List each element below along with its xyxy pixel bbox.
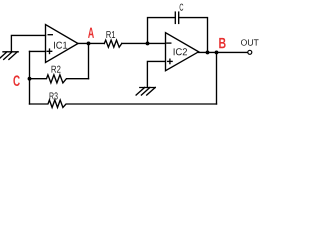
junction capacitor to output <box>206 51 210 55</box>
wire: capacitor left leg <box>148 18 176 44</box>
capacitor C <box>175 12 178 23</box>
op-amp IC1 <box>46 25 79 63</box>
wire: IC2 output to OUT terminal <box>199 51 248 53</box>
label IC1 <box>54 42 67 49</box>
junction node B <box>215 51 219 55</box>
junction R1/C/IC2 input <box>146 42 150 46</box>
resistor R3 <box>30 100 217 108</box>
label R3 <box>50 92 58 99</box>
junction node A <box>87 42 91 46</box>
node label B <box>219 38 225 48</box>
wire: vertical through node C <box>29 51 31 104</box>
junction node C <box>28 77 32 81</box>
label R2 <box>52 66 61 73</box>
wire: capacitor right leg <box>179 18 208 53</box>
pin - of IC1 <box>48 34 52 36</box>
wire: R1 to IC2 inverting input <box>122 42 166 44</box>
label R1 <box>106 31 115 38</box>
wire: ground stem to IC1 inverting input <box>11 35 45 51</box>
wire: node B to bottom feedback <box>216 52 218 104</box>
op-amp IC2 <box>166 33 199 71</box>
node label A <box>88 28 94 38</box>
label C (capacitor) <box>180 4 184 11</box>
label OUT <box>241 39 259 45</box>
resistor R2 <box>30 75 89 83</box>
pin + of IC1 <box>47 49 51 53</box>
node label C <box>13 75 19 86</box>
ground (IC1 inverting input) <box>0 52 18 60</box>
wire: R2 to node A <box>88 43 90 78</box>
wire: IC2 non-inverting input to ground <box>147 61 165 87</box>
wire: IC1 output to R1 <box>78 42 104 44</box>
pin + of IC2 <box>168 59 172 63</box>
wire: IC1 non-inverting input <box>30 50 46 52</box>
label IC2 <box>174 48 187 55</box>
resistor R1 <box>104 40 122 47</box>
ground (IC2 non-inverting input) <box>136 88 155 96</box>
pin - of IC2 <box>167 42 171 44</box>
terminal OUT circle <box>248 50 252 54</box>
